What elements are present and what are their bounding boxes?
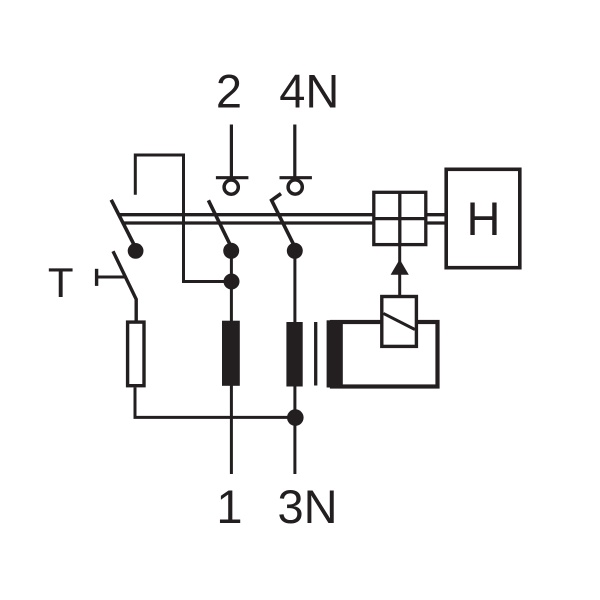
svg-text:H: H xyxy=(467,192,501,245)
wire terminal 4N lead xyxy=(293,125,296,178)
test push button bar xyxy=(95,269,98,286)
test auxiliary contact blade xyxy=(111,200,135,247)
wire line 1 conductor lower xyxy=(230,386,233,475)
mechanical linkage upper line xyxy=(118,213,374,216)
svg-text:1: 1 xyxy=(216,480,242,533)
wire test circuit fixed contact bracket xyxy=(135,155,231,282)
mechanical linkage lower line right segment xyxy=(426,221,447,224)
svg-text:3N: 3N xyxy=(277,480,337,533)
pole 1 switch blade xyxy=(208,200,231,246)
crossed block vertical divider xyxy=(398,192,401,244)
trip direction arrowhead xyxy=(391,259,409,275)
test auxiliary pivot dot xyxy=(128,243,144,259)
CT primary winding neutral xyxy=(286,322,302,387)
wire neutral conductor lower xyxy=(293,386,296,474)
relay frame rectangle xyxy=(332,322,438,387)
junction dot neutral/test circuit xyxy=(287,409,304,426)
mechanical linkage lower line xyxy=(123,221,374,224)
trip relay diagonal xyxy=(383,313,415,329)
CT secondary winding bar xyxy=(327,320,343,387)
svg-text:T: T xyxy=(48,259,74,306)
junction dot on line 1 conductor xyxy=(224,274,240,290)
svg-text:4N: 4N xyxy=(279,65,339,118)
terminal 4N fixed contact bar xyxy=(280,176,312,179)
pole 1 pivot dot xyxy=(223,243,239,259)
svg-text:2: 2 xyxy=(216,65,242,118)
terminal 2 fixed contact bar xyxy=(216,176,249,179)
pole N switch blade with hooked tip xyxy=(272,194,295,247)
trip relay box xyxy=(382,297,417,347)
wire neutral conductor upper xyxy=(293,250,296,323)
crossed block horizontal divider xyxy=(374,217,426,220)
CT primary winding line 1 xyxy=(222,321,240,386)
mechanical linkage upper line right segment xyxy=(426,213,447,216)
test push button blade xyxy=(113,251,136,320)
pole N pivot dot xyxy=(287,243,303,259)
wire terminal 2 lead xyxy=(230,125,233,178)
terminal 2 fixed contact circle xyxy=(224,180,238,194)
terminal 4N fixed contact circle xyxy=(288,180,302,194)
test push button rod xyxy=(97,276,126,279)
mechanism crossed block xyxy=(374,192,426,244)
wire line 1 conductor upper xyxy=(230,250,233,322)
wire trip linkage xyxy=(398,245,401,297)
handle box H xyxy=(446,169,520,267)
CT core xyxy=(314,322,317,386)
test resistor xyxy=(128,322,144,386)
wire resistor bottom to junction xyxy=(135,387,295,417)
